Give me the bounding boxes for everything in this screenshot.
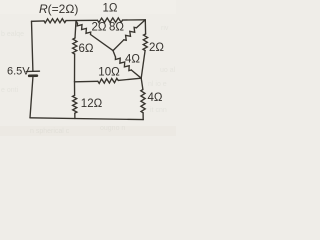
faint print bleed-through smudges	[1, 25, 176, 135]
resistor 4 ohm on right edge lower	[141, 90, 145, 113]
wire center node C to 4 ohm diagonal	[113, 51, 116, 57]
svg-text:R(=2Ω): R(=2Ω)	[39, 2, 78, 16]
svg-text:nl io e: nl io e	[148, 81, 167, 88]
svg-text:2Ω: 2Ω	[92, 22, 107, 34]
svg-text:n spherical c: n spherical c	[30, 128, 70, 135]
wire 4 ohm to bottom-right corner	[142, 113, 144, 120]
wire 8 ohm diagonal to center node C	[113, 40, 124, 51]
wire 2 ohm diagonal to center node C	[91, 35, 114, 51]
wire node F down to 12 ohm	[74, 82, 76, 96]
wire 4 ohm diagonal to node E	[131, 70, 141, 78]
resistor 8 ohm on diagonal TR to C	[124, 27, 137, 40]
svg-text:b ealqe: b ealqe	[1, 31, 24, 38]
svg-text:6.5V: 6.5V	[7, 66, 30, 78]
wire 6 ohm to middle-wire node F	[74, 54, 76, 82]
resistor 6 ohm on inner left vertical	[73, 38, 78, 54]
svg-text:6Ω: 6Ω	[79, 43, 94, 55]
svg-text:1Ω: 1Ω	[103, 3, 118, 15]
svg-text:8Ω: 8Ω	[109, 22, 124, 34]
node A junction wire down	[75, 21, 76, 38]
svg-text:4Ω: 4Ω	[125, 54, 140, 66]
paper background	[0, 0, 176, 136]
wire node E to 4 ohm resistor	[141, 78, 143, 89]
svg-text:e onti: e onti	[1, 87, 19, 94]
svg-text:4Ω: 4Ω	[148, 92, 163, 104]
svg-text:riv: riv	[161, 25, 169, 32]
wire 12 ohm to bottom wire	[74, 113, 76, 118]
wire right edge middle (2 ohm to node E)	[141, 51, 145, 79]
battery 6.5V negative plate	[29, 74, 37, 77]
wire bottom edge	[30, 118, 143, 120]
resistor 2 ohm on right edge	[143, 34, 148, 51]
battery 6.5V positive plate	[26, 70, 39, 72]
resistor 12 ohm on inner left vertical lower	[73, 95, 77, 113]
wire middle horizontal left part	[75, 80, 98, 83]
wire middle horizontal right part to node E	[118, 78, 141, 80]
resistor 10 ohm on middle wire	[98, 78, 118, 83]
wire left edge upper (to battery)	[32, 21, 33, 71]
svg-text:10Ω: 10Ω	[98, 67, 120, 79]
wire top-left segment	[32, 20, 45, 22]
wire node A to 2 ohm diagonal	[76, 21, 78, 24]
svg-text:ougno n: ougno n	[100, 125, 125, 132]
wire top right segment	[123, 19, 146, 21]
wire top-right corner to 8 ohm diagonal	[137, 20, 146, 28]
svg-text:it cnn: it cnn	[150, 107, 167, 114]
resistor 2 ohm on diagonal A to C	[77, 24, 90, 35]
resistor R (=2 ohm) on top wire	[44, 19, 66, 23]
svg-text:12Ω: 12Ω	[81, 98, 103, 110]
wire top middle segment	[66, 19, 98, 21]
resistor 1 ohm on top wire	[98, 18, 123, 23]
resistor 4 ohm on diagonal C to E	[115, 57, 131, 71]
svg-text:2Ω: 2Ω	[149, 42, 164, 54]
wire right edge upper	[144, 20, 146, 34]
wire left edge lower (battery to bottom)	[30, 76, 33, 118]
svg-text:uo al: uo al	[160, 67, 176, 74]
